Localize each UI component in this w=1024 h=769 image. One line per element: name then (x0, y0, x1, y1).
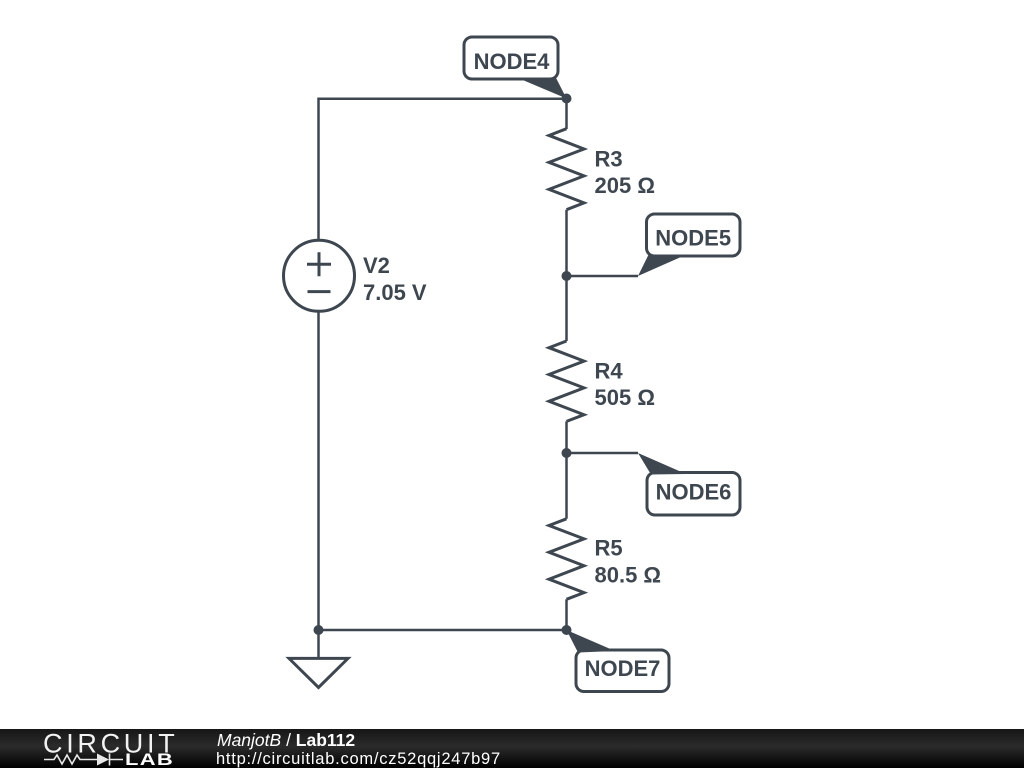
footer bar (0, 729, 1024, 768)
svg-text:R4: R4 (595, 359, 624, 384)
wire left rail lower (V2 minus terminal to bottom wire) (317, 311, 320, 630)
wire NODE5 stub (567, 275, 639, 278)
CircuitLab logo (42, 729, 182, 768)
wire top horizontal and left rail upper (V2 plus to NODE4) (319, 99, 567, 241)
svg-text:R5: R5 (595, 536, 623, 561)
node NODE6 junction dot (562, 448, 572, 458)
V2 minus sign (308, 290, 331, 293)
ground junction dot (314, 625, 324, 635)
svg-text:R3: R3 (595, 146, 623, 171)
wire ground stem (317, 630, 320, 658)
svg-text:NODE7: NODE7 (585, 656, 661, 681)
voltage source V2 circle (284, 240, 355, 311)
resistor R4 zigzag (549, 341, 584, 421)
wire bottom horizontal (ground junction to NODE7) (319, 629, 567, 632)
svg-text:80.5 Ω: 80.5 Ω (595, 562, 662, 587)
svg-text:LAB: LAB (125, 750, 174, 768)
svg-text:7.05 V: 7.05 V (363, 280, 427, 305)
svg-text:205 Ω: 205 Ω (595, 173, 655, 198)
ground symbol triangle (289, 658, 348, 687)
wire NODE6 stub (567, 452, 639, 455)
resistor R5 zigzag (549, 519, 584, 600)
node NODE4 callout box (464, 37, 567, 99)
wire R4 to NODE6 (565, 421, 568, 453)
svg-text:NODE6: NODE6 (656, 479, 732, 504)
node NODE5 callout box (638, 214, 740, 276)
wire R4 lead from NODE5 (565, 276, 568, 341)
svg-text:NODE5: NODE5 (655, 225, 731, 250)
resistor R3 zigzag (549, 129, 584, 210)
wire R5 lead from NODE6 (565, 453, 568, 519)
node NODE5 junction dot (562, 271, 572, 281)
wire R5 to NODE7 (565, 599, 568, 630)
svg-text:NODE4: NODE4 (474, 49, 551, 74)
wire right rail segment NODE4 to R3 (565, 99, 568, 129)
title text (217, 730, 355, 751)
URL text (216, 750, 501, 769)
node NODE7 callout box (567, 630, 670, 692)
node NODE7 junction dot (562, 625, 572, 635)
svg-text:V2: V2 (363, 253, 390, 278)
svg-text:505 Ω: 505 Ω (595, 385, 655, 410)
V2 plus sign (307, 252, 331, 276)
node NODE6 callout box (638, 453, 740, 515)
node NODE4 junction dot (562, 94, 572, 104)
wire R3 to NODE5 (565, 210, 568, 276)
